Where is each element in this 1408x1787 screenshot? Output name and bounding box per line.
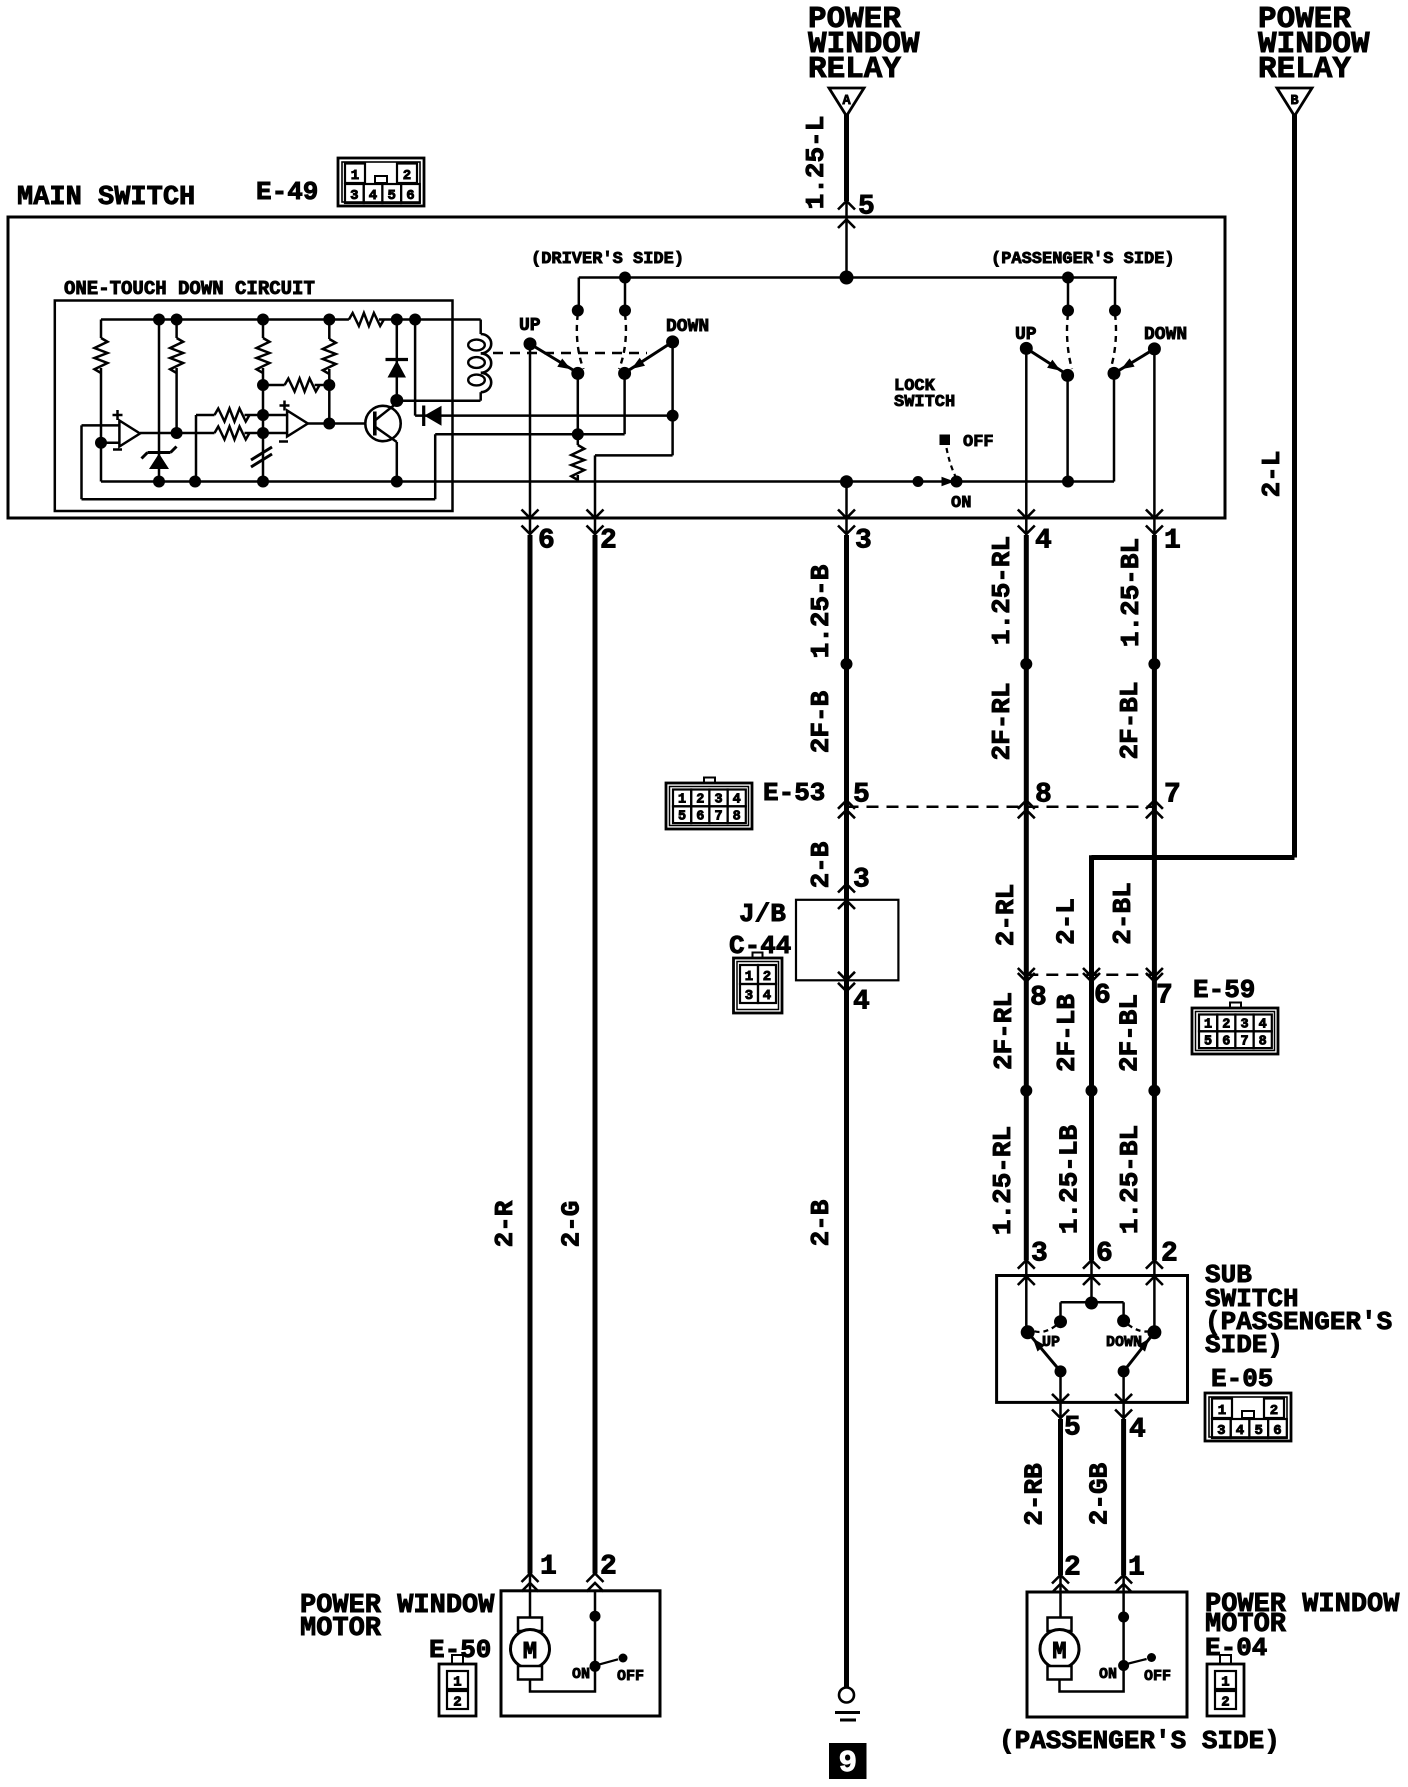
svg-text:7: 7 bbox=[1164, 780, 1181, 811]
svg-text:4: 4 bbox=[1035, 526, 1052, 557]
svg-text:6: 6 bbox=[1094, 981, 1111, 1012]
svg-text:DOWN: DOWN bbox=[666, 317, 709, 337]
svg-text:3: 3 bbox=[745, 988, 753, 1004]
svg-text:2: 2 bbox=[1064, 1553, 1081, 1584]
svg-text:6: 6 bbox=[406, 188, 414, 204]
svg-text:8: 8 bbox=[1030, 983, 1047, 1014]
svg-text:E-59: E-59 bbox=[1193, 975, 1255, 1005]
svg-text:(DRIVER'S SIDE): (DRIVER'S SIDE) bbox=[531, 250, 684, 269]
svg-text:2: 2 bbox=[453, 1695, 461, 1711]
svg-text:9: 9 bbox=[838, 1746, 857, 1781]
svg-text:E-50: E-50 bbox=[429, 1635, 491, 1665]
svg-text:OFF: OFF bbox=[963, 433, 994, 452]
svg-text:1.25-BL: 1.25-BL bbox=[1115, 1125, 1145, 1234]
svg-text:2-L: 2-L bbox=[1257, 451, 1287, 498]
svg-text:2: 2 bbox=[1161, 1239, 1178, 1270]
svg-text:2-L: 2-L bbox=[1052, 898, 1082, 945]
svg-text:DOWN: DOWN bbox=[1106, 1334, 1142, 1351]
svg-text:6: 6 bbox=[1096, 1239, 1113, 1270]
svg-text:2-B: 2-B bbox=[806, 1199, 836, 1246]
svg-text:1.25-RL: 1.25-RL bbox=[988, 1126, 1018, 1235]
svg-text:7: 7 bbox=[714, 810, 722, 825]
svg-text:J/B: J/B bbox=[739, 899, 786, 929]
svg-text:DOWN: DOWN bbox=[1144, 325, 1187, 345]
svg-text:7: 7 bbox=[1156, 981, 1173, 1012]
svg-text:C-44: C-44 bbox=[729, 931, 791, 961]
svg-text:2: 2 bbox=[1270, 1403, 1278, 1419]
svg-text:UP: UP bbox=[1042, 1334, 1060, 1351]
svg-text:3: 3 bbox=[855, 526, 872, 557]
svg-text:7: 7 bbox=[1240, 1035, 1248, 1050]
svg-text:RELAY: RELAY bbox=[808, 52, 901, 87]
svg-text:2F-LB: 2F-LB bbox=[1052, 994, 1082, 1072]
svg-text:2-RB: 2-RB bbox=[1020, 1463, 1050, 1526]
svg-text:2: 2 bbox=[600, 1552, 617, 1583]
svg-text:3: 3 bbox=[853, 864, 870, 895]
svg-text:4: 4 bbox=[853, 987, 870, 1018]
svg-text:6: 6 bbox=[1273, 1423, 1281, 1439]
svg-text:ON: ON bbox=[1099, 1666, 1117, 1683]
svg-text:RELAY: RELAY bbox=[1258, 52, 1351, 87]
svg-text:4: 4 bbox=[1129, 1415, 1146, 1446]
svg-text:OFF: OFF bbox=[1144, 1668, 1171, 1685]
svg-text:1: 1 bbox=[1221, 1675, 1229, 1691]
svg-text:5: 5 bbox=[387, 188, 395, 204]
svg-text:A: A bbox=[842, 94, 851, 109]
svg-text:M: M bbox=[523, 1639, 537, 1666]
svg-text:2F-BL: 2F-BL bbox=[1115, 681, 1145, 759]
svg-text:2: 2 bbox=[763, 969, 771, 985]
svg-text:1: 1 bbox=[453, 1675, 461, 1691]
svg-text:4: 4 bbox=[763, 988, 771, 1004]
svg-text:E-05: E-05 bbox=[1211, 1364, 1273, 1394]
svg-text:1.25-BL: 1.25-BL bbox=[1116, 538, 1146, 647]
svg-text:SIDE): SIDE) bbox=[1205, 1330, 1283, 1360]
svg-text:3: 3 bbox=[1031, 1239, 1048, 1270]
svg-text:2: 2 bbox=[403, 168, 411, 184]
svg-text:5: 5 bbox=[1064, 1413, 1081, 1444]
svg-text:2F-BL: 2F-BL bbox=[1115, 994, 1145, 1072]
svg-text:1.25-B: 1.25-B bbox=[806, 564, 836, 658]
svg-text:6: 6 bbox=[538, 526, 555, 557]
svg-text:ON: ON bbox=[951, 494, 971, 513]
svg-text:B: B bbox=[1290, 94, 1298, 109]
svg-text:1.25-RL: 1.25-RL bbox=[987, 536, 1017, 645]
svg-text:5: 5 bbox=[1254, 1423, 1262, 1439]
svg-text:MAIN SWITCH: MAIN SWITCH bbox=[17, 183, 195, 213]
svg-text:1.25-L: 1.25-L bbox=[801, 116, 831, 210]
svg-text:4: 4 bbox=[369, 188, 377, 204]
svg-text:UP: UP bbox=[519, 316, 541, 336]
svg-text:1: 1 bbox=[351, 168, 359, 184]
svg-text:4: 4 bbox=[1236, 1423, 1244, 1439]
svg-text:2-BL: 2-BL bbox=[1108, 882, 1138, 944]
svg-text:3: 3 bbox=[350, 188, 358, 204]
svg-text:5: 5 bbox=[1204, 1035, 1212, 1050]
svg-text:3: 3 bbox=[1217, 1423, 1225, 1439]
svg-text:2-G: 2-G bbox=[557, 1201, 587, 1248]
svg-text:(PASSENGER'S SIDE): (PASSENGER'S SIDE) bbox=[991, 250, 1175, 269]
svg-text:6: 6 bbox=[1222, 1035, 1230, 1050]
svg-text:1: 1 bbox=[1164, 526, 1181, 557]
svg-text:1: 1 bbox=[745, 969, 753, 985]
svg-text:OFF: OFF bbox=[617, 1668, 644, 1685]
svg-text:6: 6 bbox=[696, 810, 704, 825]
svg-text:2-RL: 2-RL bbox=[991, 884, 1021, 946]
svg-text:E-49: E-49 bbox=[256, 177, 318, 207]
svg-text:E-04: E-04 bbox=[1205, 1633, 1267, 1663]
svg-text:2-R: 2-R bbox=[490, 1200, 520, 1247]
svg-text:2F-RL: 2F-RL bbox=[987, 682, 1017, 760]
svg-text:2: 2 bbox=[1221, 1695, 1229, 1711]
svg-text:2-B: 2-B bbox=[806, 841, 836, 888]
svg-text:M: M bbox=[1052, 1639, 1066, 1666]
svg-text:1: 1 bbox=[1128, 1553, 1145, 1584]
svg-text:MOTOR: MOTOR bbox=[300, 1614, 382, 1644]
svg-text:1: 1 bbox=[540, 1552, 557, 1583]
svg-text:2F-B: 2F-B bbox=[806, 690, 836, 753]
svg-text:8: 8 bbox=[1259, 1035, 1267, 1050]
svg-text:(PASSENGER'S SIDE): (PASSENGER'S SIDE) bbox=[999, 1726, 1280, 1756]
svg-text:2-GB: 2-GB bbox=[1085, 1462, 1115, 1525]
svg-text:5: 5 bbox=[678, 810, 686, 825]
svg-text:8: 8 bbox=[1035, 780, 1052, 811]
svg-text:SWITCH: SWITCH bbox=[894, 393, 955, 412]
svg-text:2: 2 bbox=[600, 526, 617, 557]
svg-text:8: 8 bbox=[733, 810, 741, 825]
svg-text:ONE-TOUCH DOWN CIRCUIT: ONE-TOUCH DOWN CIRCUIT bbox=[64, 278, 315, 300]
svg-text:1.25-LB: 1.25-LB bbox=[1055, 1124, 1085, 1234]
svg-text:2F-RL: 2F-RL bbox=[989, 992, 1019, 1070]
svg-text:E-53: E-53 bbox=[763, 778, 825, 808]
svg-text:1: 1 bbox=[1218, 1403, 1226, 1419]
svg-text:ON: ON bbox=[572, 1666, 590, 1683]
